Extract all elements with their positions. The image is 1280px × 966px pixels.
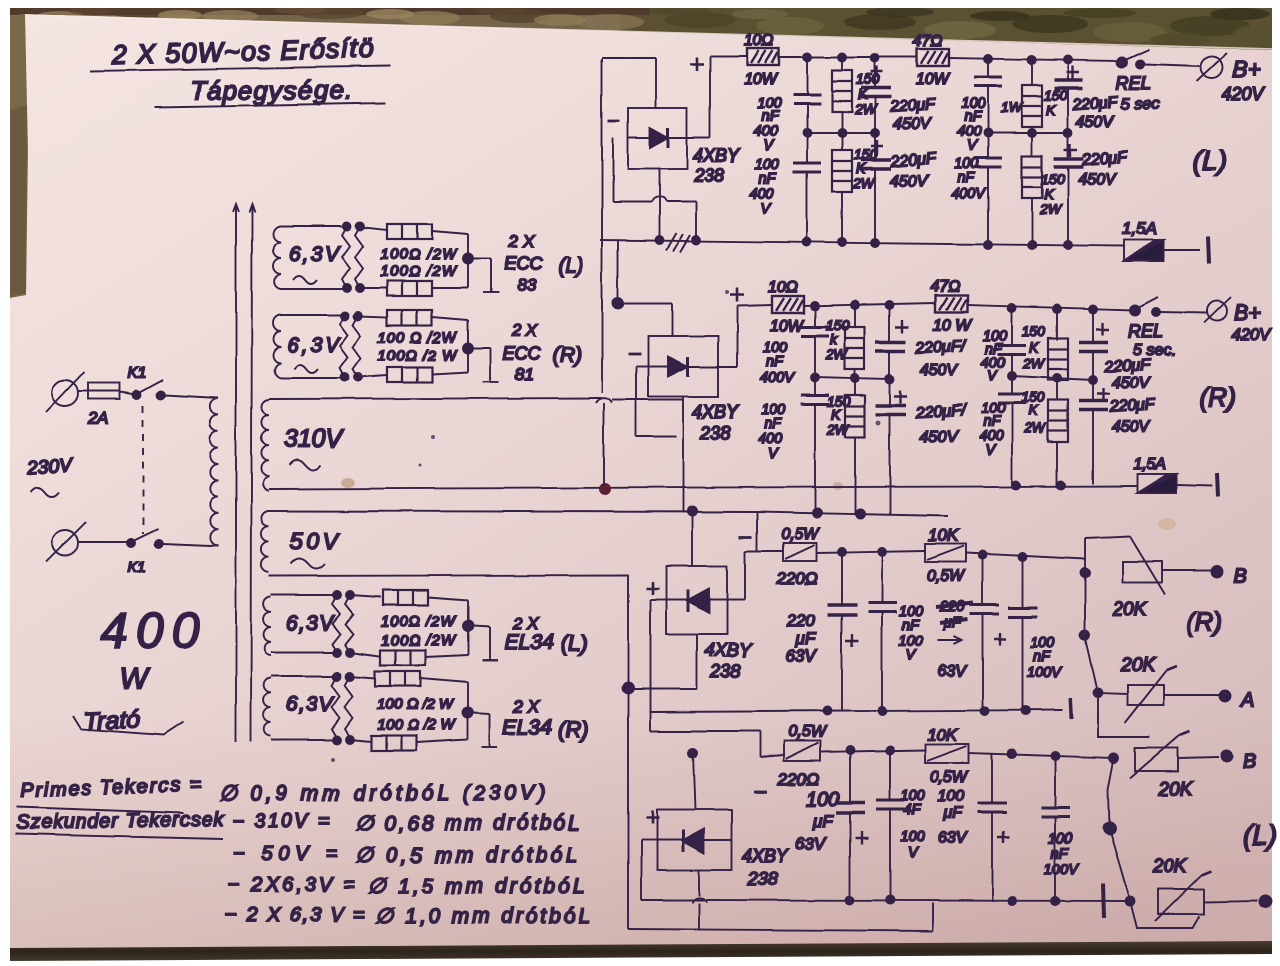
- svg-text:0,5W: 0,5W: [788, 724, 827, 741]
- svg-text:1,5A: 1,5A: [1133, 456, 1166, 473]
- svg-text:2 X: 2 X: [508, 232, 535, 251]
- svg-text:nF: nF: [1033, 649, 1051, 665]
- svg-text:V: V: [908, 845, 919, 861]
- svg-text:100Ω /2W: 100Ω /2W: [381, 632, 457, 649]
- svg-text:nF: nF: [766, 354, 784, 370]
- svg-text:V: V: [763, 138, 774, 154]
- svg-text:63V: 63V: [938, 830, 968, 847]
- svg-text:2W: 2W: [1022, 355, 1046, 371]
- svg-text:6,3V: 6,3V: [287, 334, 341, 357]
- svg-text:220μF: 220μF: [888, 97, 936, 116]
- svg-text:2W: 2W: [1039, 201, 1063, 217]
- svg-text:6,3V: 6,3V: [286, 612, 335, 635]
- svg-text:EL34: EL34: [505, 631, 554, 654]
- svg-text:100 Ω /2W: 100 Ω /2W: [378, 329, 458, 346]
- svg-text:V: V: [761, 201, 772, 217]
- svg-text:1,5A: 1,5A: [1122, 219, 1157, 238]
- svg-text:400V: 400V: [760, 370, 795, 386]
- svg-text:2 X: 2 X: [513, 697, 540, 716]
- svg-text:450V: 450V: [920, 429, 959, 446]
- svg-text:20K: 20K: [1112, 599, 1148, 620]
- svg-text:100: 100: [901, 829, 925, 845]
- svg-text:A: A: [1240, 689, 1254, 711]
- svg-text:450V: 450V: [1112, 419, 1151, 436]
- svg-text:10K: 10K: [927, 725, 958, 744]
- svg-text:230V: 230V: [26, 455, 75, 479]
- svg-text:238: 238: [693, 166, 724, 186]
- svg-text:100 Ω /2 W: 100 Ω /2 W: [377, 696, 455, 713]
- svg-text:220: 220: [786, 611, 816, 630]
- svg-text:220μF/: 220μF/: [914, 337, 967, 357]
- svg-text:450V: 450V: [1076, 114, 1115, 131]
- svg-text:K1: K1: [128, 559, 146, 576]
- svg-text:400: 400: [750, 186, 774, 202]
- svg-text:(R): (R): [1186, 607, 1222, 637]
- svg-text:63V: 63V: [938, 663, 968, 680]
- svg-text:450V: 450V: [920, 362, 959, 379]
- svg-text:nF: nF: [759, 171, 777, 187]
- svg-text:20K: 20K: [1152, 856, 1188, 877]
- svg-text:450V: 450V: [1078, 171, 1117, 188]
- svg-text:Tápegysége.: Tápegysége.: [190, 75, 352, 105]
- svg-text:(R): (R): [553, 344, 582, 367]
- svg-text:4XBY: 4XBY: [693, 146, 741, 166]
- svg-text:REL: REL: [1128, 321, 1163, 341]
- svg-text:100Ω /2 W: 100Ω /2 W: [378, 347, 458, 364]
- svg-text:K: K: [1044, 186, 1054, 202]
- svg-text:B+: B+: [1234, 300, 1262, 325]
- svg-text:2W: 2W: [1023, 420, 1047, 436]
- svg-text:W: W: [120, 662, 151, 695]
- svg-text:∅ 0,9 mm drótbóL (230V): ∅ 0,9 mm drótbóL (230V): [218, 782, 545, 805]
- svg-text:10Ω: 10Ω: [744, 32, 774, 49]
- svg-text:400V: 400V: [951, 186, 986, 202]
- svg-text:420V: 420V: [1231, 325, 1272, 344]
- svg-text:2 X: 2 X: [511, 321, 538, 340]
- svg-text:B+: B+: [1232, 56, 1261, 82]
- svg-text:K1: K1: [128, 365, 146, 382]
- svg-text:400: 400: [101, 604, 199, 658]
- svg-text:5 sec: 5 sec: [1121, 96, 1159, 113]
- svg-text:10W: 10W: [770, 318, 805, 335]
- svg-text:63V: 63V: [795, 834, 827, 853]
- svg-text:63V: 63V: [786, 646, 818, 665]
- svg-text:238: 238: [747, 869, 778, 889]
- svg-text:nF: nF: [761, 109, 779, 125]
- svg-text:B: B: [1234, 565, 1247, 587]
- svg-text:K: K: [1028, 402, 1038, 418]
- svg-text:100V: 100V: [1044, 862, 1079, 878]
- svg-text:100Ω /2W: 100Ω /2W: [381, 613, 457, 630]
- svg-text:V: V: [768, 446, 779, 462]
- svg-text:− 2X6,3V =: − 2X6,3V =: [228, 874, 355, 896]
- svg-text:220μF: 220μF: [1108, 397, 1156, 416]
- svg-text:450V: 450V: [890, 173, 929, 190]
- svg-text:2A: 2A: [87, 409, 109, 428]
- svg-text:1W: 1W: [1001, 99, 1024, 115]
- svg-text:B: B: [1243, 751, 1256, 773]
- svg-text:0,5W: 0,5W: [930, 769, 969, 786]
- svg-text:50V: 50V: [290, 528, 341, 554]
- svg-text:∅ 0,68 mm drótbóL: ∅ 0,68 mm drótbóL: [355, 812, 580, 835]
- svg-text:150: 150: [1041, 171, 1065, 187]
- svg-text:2W: 2W: [826, 421, 850, 437]
- svg-text:100Ω /2W: 100Ω /2W: [380, 263, 458, 280]
- svg-text:K: K: [1029, 339, 1039, 355]
- svg-text:220μF: 220μF: [1071, 94, 1120, 114]
- svg-text:ECC: ECC: [503, 344, 542, 364]
- svg-text:0,5W: 0,5W: [927, 568, 966, 585]
- svg-text:450V: 450V: [1112, 375, 1151, 392]
- svg-text:450V: 450V: [893, 116, 932, 133]
- svg-text:μF: μF: [943, 805, 964, 822]
- svg-text:2W: 2W: [852, 175, 876, 191]
- svg-text:(R): (R): [558, 717, 589, 742]
- svg-text:238: 238: [710, 661, 741, 681]
- svg-text:100: 100: [1048, 831, 1072, 847]
- svg-text:20K: 20K: [1157, 779, 1193, 800]
- svg-text:81: 81: [515, 365, 534, 384]
- svg-text:(L): (L): [558, 254, 584, 277]
- svg-text:100: 100: [938, 788, 965, 805]
- svg-text:4XBY: 4XBY: [742, 846, 790, 866]
- svg-text:∅ 0,5 mm drótbóL: ∅ 0,5 mm drótbóL: [355, 844, 578, 867]
- svg-text:4XBY: 4XBY: [692, 402, 740, 422]
- svg-text:83: 83: [517, 276, 536, 295]
- svg-text:10K: 10K: [928, 526, 959, 545]
- svg-text:K: K: [831, 406, 841, 422]
- svg-text:nF: nF: [964, 109, 982, 125]
- svg-text:V: V: [967, 138, 978, 154]
- svg-text:REL: REL: [1116, 73, 1151, 93]
- svg-text:6,3V: 6,3V: [289, 243, 341, 266]
- svg-text:4XBY: 4XBY: [705, 640, 753, 660]
- svg-text:100Ω /2W: 100Ω /2W: [380, 246, 458, 263]
- svg-text:5 sec.: 5 sec.: [1133, 342, 1176, 359]
- svg-text:0,5W: 0,5W: [781, 526, 820, 543]
- svg-text:V: V: [985, 443, 996, 459]
- svg-text:238: 238: [699, 423, 730, 443]
- svg-text:(L): (L): [1243, 820, 1277, 851]
- svg-text:10W: 10W: [916, 71, 951, 88]
- svg-text:310V: 310V: [284, 425, 344, 453]
- svg-text:(L): (L): [1193, 145, 1227, 176]
- svg-text:220μF/: 220μF/: [914, 402, 967, 422]
- svg-text:∅ 1,0 mm drótbóL: ∅ 1,0 mm drótbóL: [375, 905, 590, 928]
- svg-text:6,3V: 6,3V: [286, 693, 335, 716]
- svg-text:400: 400: [758, 431, 782, 447]
- svg-text:nF: nF: [957, 170, 975, 186]
- svg-text:nF: nF: [983, 414, 1001, 430]
- svg-text:220μF: 220μF: [1103, 357, 1151, 376]
- svg-text:4F: 4F: [904, 802, 922, 818]
- svg-text:ECC: ECC: [504, 254, 543, 274]
- svg-text:(L): (L): [561, 631, 588, 656]
- svg-text:V: V: [906, 648, 917, 664]
- svg-text:(R): (R): [1200, 382, 1236, 412]
- svg-text:220μF: 220μF: [1080, 149, 1129, 169]
- svg-text:150: 150: [1022, 323, 1046, 339]
- svg-text:47Ω: 47Ω: [913, 33, 943, 50]
- svg-text:nF: nF: [1051, 846, 1069, 862]
- svg-text:100 Ω /2 W: 100 Ω /2 W: [377, 717, 457, 734]
- svg-text:k: k: [830, 331, 838, 347]
- svg-text:10W: 10W: [744, 71, 779, 88]
- svg-text:∅ 1,5 mm drótbóL: ∅ 1,5 mm drótbóL: [368, 875, 585, 898]
- svg-text:− 310V =: − 310V =: [232, 810, 330, 832]
- svg-text:220Ω: 220Ω: [776, 569, 818, 588]
- svg-text:47Ω: 47Ω: [930, 278, 960, 295]
- svg-text:V: V: [987, 368, 998, 384]
- svg-text:nF: nF: [764, 416, 782, 432]
- svg-text:EL34: EL34: [503, 716, 552, 739]
- svg-text:2W: 2W: [825, 346, 849, 362]
- svg-text:μF: μF: [812, 812, 834, 831]
- svg-text:K: K: [1046, 102, 1056, 118]
- svg-text:20K: 20K: [1120, 655, 1156, 676]
- svg-text:100: 100: [806, 789, 839, 811]
- svg-text:10 W: 10 W: [933, 317, 972, 334]
- svg-text:420V: 420V: [1222, 84, 1266, 104]
- svg-text:10Ω: 10Ω: [768, 279, 798, 296]
- svg-text:220Ω: 220Ω: [777, 770, 819, 789]
- svg-text:100V: 100V: [1027, 665, 1062, 681]
- svg-text:nF: nF: [902, 618, 920, 634]
- svg-text:Szekunder Tekercsek: Szekunder Tekercsek: [16, 808, 224, 834]
